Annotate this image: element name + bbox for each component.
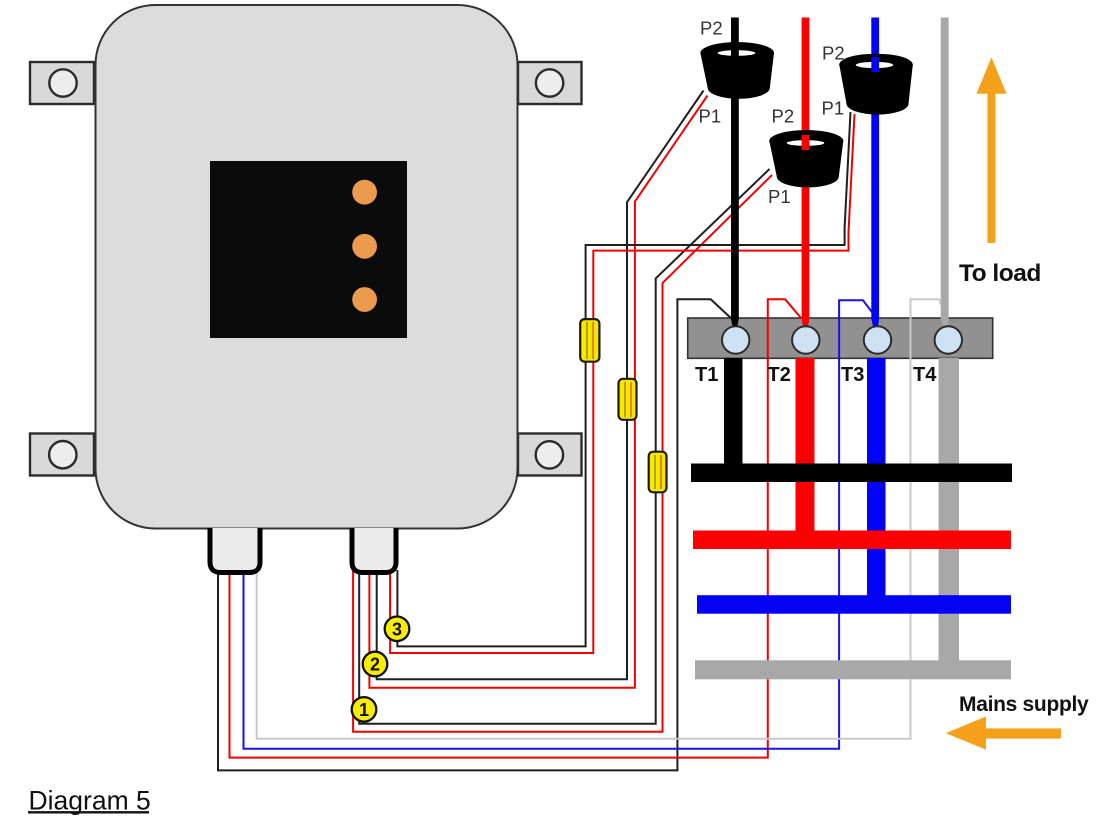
conductor N taper at T4 [941, 319, 949, 331]
svg-text:Mains supply: Mains supply [959, 693, 1089, 716]
wire CT1 secondary black (gland pair 2) [377, 91, 704, 680]
svg-text:T3: T3 [841, 364, 864, 386]
conductor L2 red vertical (top) [802, 18, 810, 320]
svg-text:T1: T1 [695, 364, 718, 386]
terminal block [688, 318, 993, 358]
numbered tag 3 [385, 617, 410, 642]
svg-text:P2: P2 [772, 106, 795, 127]
cable gland right [352, 528, 396, 573]
conductor L3 blue vertical (top) [871, 18, 879, 320]
LED 1 [352, 180, 377, 205]
svg-text:P2: P2 [822, 43, 845, 64]
ferrule 3 on CT2 pair [649, 452, 667, 493]
svg-text:1: 1 [359, 700, 369, 720]
conductor L2 red vertical (below block) [796, 358, 815, 538]
wire CT1 secondary red (gland pair 2) [369, 96, 707, 688]
conductor L1 taper at T1 [731, 319, 739, 331]
wire CT3 secondary black (gland pair 3) [397, 112, 850, 646]
svg-text:P1: P1 [768, 186, 791, 207]
terminal T3 [864, 326, 891, 353]
mounting tab top-right [518, 62, 582, 104]
svg-text:2: 2 [370, 655, 380, 675]
arrow mains supply [946, 717, 1061, 750]
conductor L3 taper at T3 [871, 319, 879, 331]
current transformer CT1 body [700, 42, 774, 99]
conductor L3 through CT3 window [871, 57, 879, 72]
mounting tab bottom-right [518, 434, 582, 476]
mounting tab top-left [30, 62, 94, 104]
conductor L3 blue vertical (below block) [867, 358, 886, 603]
wire CT2 secondary black (gland pair 1) [359, 169, 769, 724]
bus bar L2 red [693, 531, 1011, 550]
arrow to load [976, 57, 1006, 243]
terminal T4 [935, 326, 962, 353]
svg-text:3: 3 [392, 619, 402, 639]
cable gland left [210, 528, 260, 573]
conductor N gray vertical (top) [941, 18, 949, 320]
wire T3 sense (blue) terminal T3 to left gland [244, 300, 878, 749]
svg-text:To load: To load [959, 260, 1041, 287]
conductor L2 through CT2 window [802, 135, 810, 150]
conductor L2 taper at T2 [802, 319, 810, 331]
bus bar L3 blue [697, 595, 1011, 614]
terminal T1 [722, 326, 749, 353]
wire CT3 secondary red (gland pair 3) [390, 114, 854, 653]
wire T2 sense (red) terminal T2 to left gland [230, 299, 802, 757]
display panel [210, 161, 407, 338]
wire T1 sense (black) terminal T1 to left gland [218, 299, 733, 770]
svg-text:P1: P1 [699, 106, 722, 127]
conductor L1 black vertical (below block) [724, 358, 743, 470]
conductor L1 black vertical (top) [731, 18, 739, 319]
mounting tab bottom-left [30, 434, 94, 476]
ferrule 1 on CT3 pair [580, 319, 599, 362]
bus bar L1 black [691, 464, 1012, 483]
controller enclosure box [96, 5, 518, 529]
bus bar N gray [695, 660, 1011, 679]
svg-text:Diagram 5: Diagram 5 [29, 785, 151, 815]
ferrule 2 on CT1 pair [619, 379, 637, 420]
current transformer CT2 body [769, 130, 843, 187]
numbered tag 1 [352, 697, 377, 722]
conductor N gray vertical (below block) [939, 358, 960, 668]
wire T4 sense (white) terminal T4 to left gland [257, 299, 947, 739]
LED 3 [352, 287, 377, 312]
svg-text:T2: T2 [768, 364, 791, 386]
svg-text:P1: P1 [822, 97, 845, 118]
svg-text:P2: P2 [700, 18, 723, 39]
svg-text:T4: T4 [913, 364, 937, 386]
LED 2 [352, 234, 377, 259]
wire CT2 secondary red (gland pair 1) [353, 175, 772, 732]
terminal T2 [792, 326, 819, 353]
conductor L1 through CT1 window [731, 45, 739, 60]
current transformer CT3 body [839, 54, 913, 115]
numbered tag 2 [363, 652, 388, 677]
